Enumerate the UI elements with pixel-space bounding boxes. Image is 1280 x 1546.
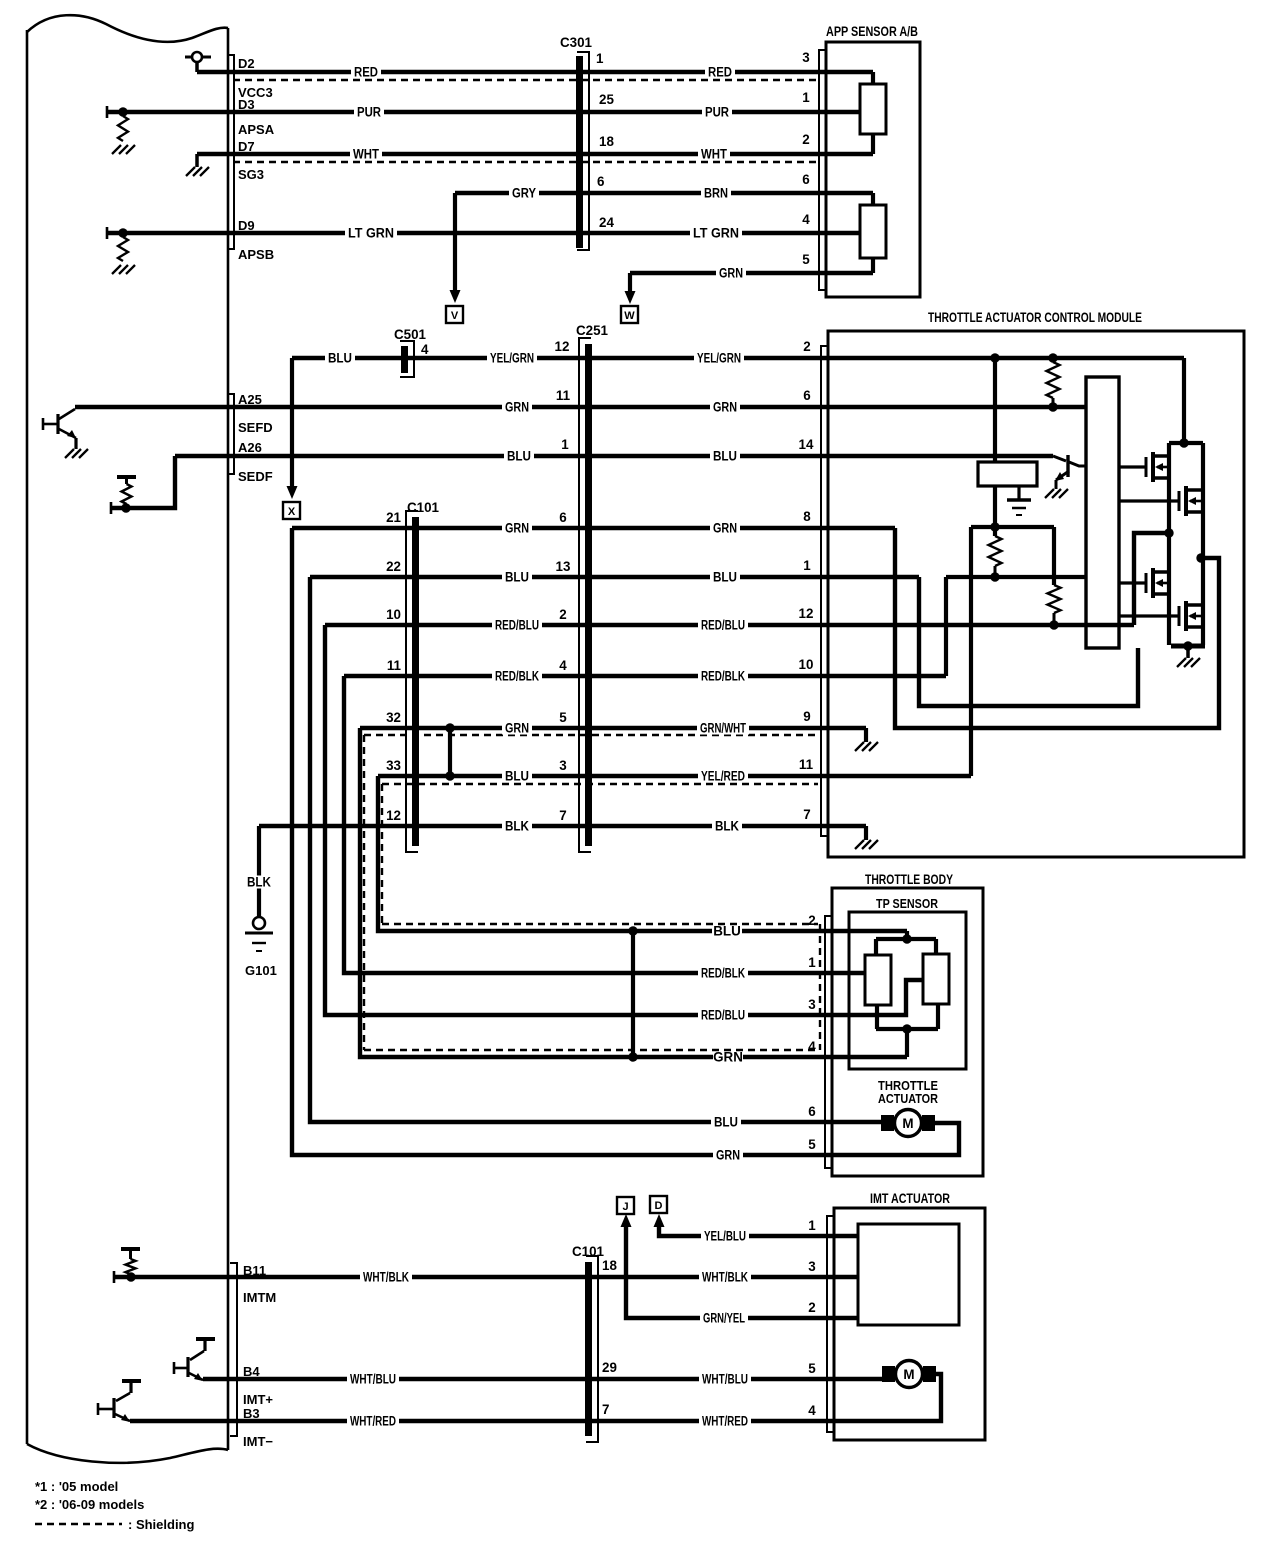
label BLU A26 left (504, 450, 534, 463)
svg-text:BRN: BRN (704, 186, 728, 201)
svg-text:18: 18 (599, 134, 614, 149)
svg-text:APSA: APSA (238, 122, 275, 137)
svg-text:: Shielding: : Shielding (128, 1517, 195, 1532)
ground at TAC pin 9 (855, 742, 864, 751)
ECM pin strip A-group (228, 394, 234, 474)
svg-text:C301: C301 (560, 35, 593, 50)
wire RED/BLK C101 11 to TAC pin 10 (344, 674, 946, 678)
pin 9 ground stub (864, 728, 868, 742)
svg-text:1: 1 (561, 437, 569, 452)
label GRN/YEL I3 (700, 1312, 748, 1325)
wire riser GRN to throttle actuator pin 5 (292, 528, 959, 1155)
svg-text:BLU: BLU (328, 351, 352, 366)
wire BLU C101 22 to TAC pin 1 (310, 575, 919, 579)
svg-text:8: 8 (803, 509, 811, 524)
label BLU W6 left (502, 770, 532, 783)
TP pot 1 bottom stub (875, 1005, 879, 1029)
ground stub at D7 (195, 154, 199, 167)
resistor R3 (1048, 585, 1061, 613)
pin 8 net route (895, 528, 1219, 728)
ground G101 bars (245, 932, 273, 935)
shield dash left outer (363, 735, 365, 1050)
svg-text:B4: B4 (243, 1364, 260, 1379)
shield dashed line for RED wire (233, 79, 818, 81)
svg-text:RED/BLU: RED/BLU (495, 618, 539, 633)
wire A26 internal jog (111, 456, 175, 508)
svg-text:IMT ACTUATOR: IMT ACTUATOR (870, 1191, 950, 1206)
svg-text:21: 21 (386, 510, 401, 525)
label BLU T5 (711, 1116, 741, 1129)
wire GRN C101 21 to TAC pin 8 (292, 526, 895, 530)
TP potentiometer 1 (865, 955, 891, 1005)
label PUR right (702, 106, 732, 119)
svg-text:APSB: APSB (238, 247, 274, 262)
wire WHT/BLU B4 to IMT motor (203, 1377, 882, 1381)
label WHT/BLK I2 left (360, 1271, 412, 1284)
label BLK vertical (244, 876, 274, 889)
label BLU W2 left (502, 571, 532, 584)
IMT position sensor block (858, 1224, 959, 1325)
label RED/BLK W4 left (492, 670, 542, 683)
svg-text:LT GRN: LT GRN (348, 226, 394, 241)
label RED right (705, 66, 735, 79)
svg-text:5: 5 (559, 710, 567, 725)
svg-text:LT GRN: LT GRN (693, 226, 739, 241)
throttle body box (832, 888, 983, 1176)
label BLU right M2 (710, 450, 740, 463)
TP sensor box (849, 912, 966, 1069)
svg-text:32: 32 (386, 710, 401, 725)
svg-text:RED/BLU: RED/BLU (701, 618, 745, 633)
connector box X (283, 502, 300, 519)
svg-text:10: 10 (386, 607, 401, 622)
svg-text:BLU: BLU (505, 769, 529, 784)
resistor R2 (989, 536, 1002, 566)
svg-text:BLU: BLU (713, 449, 737, 464)
svg-text:13: 13 (556, 559, 571, 574)
wire riser RED/BLU to TP sensor pin 3 (325, 625, 923, 1015)
svg-text:BLU: BLU (507, 449, 531, 464)
H-bridge right leg (1201, 443, 1205, 645)
label BLK W7 left (502, 820, 532, 833)
svg-text:A26: A26 (238, 440, 262, 455)
svg-text:SG3: SG3 (238, 167, 264, 182)
TP potentiometer 2 (923, 954, 949, 1004)
svg-text:5: 5 (802, 252, 810, 267)
resistor R1 pullup (1047, 362, 1060, 398)
component ground stub (1017, 486, 1020, 499)
supply drop to H-bridge (1182, 358, 1186, 443)
node shield drain throttle top (628, 926, 637, 935)
svg-text:4: 4 (808, 1039, 816, 1054)
label RED/BLK T2 (698, 967, 748, 980)
pin 11 rail (971, 525, 1054, 529)
rect component lower feed (993, 486, 997, 536)
label BLU at C501 (325, 352, 355, 365)
svg-text:BLU: BLU (505, 570, 529, 585)
svg-text:BLU: BLU (714, 1115, 738, 1130)
label WHT left (350, 148, 382, 161)
wire GRN/YEL riser to J (626, 1227, 858, 1318)
label WHT/BLU I4 left (347, 1373, 399, 1386)
svg-text:THROTTLE ACTUATOR CONTROL MODU: THROTTLE ACTUATOR CONTROL MODULE (928, 310, 1142, 325)
svg-text:6: 6 (808, 1104, 815, 1119)
ground at D7 (186, 167, 195, 176)
wire PUR pin D3 to APP sensor pin 1 (107, 110, 860, 114)
wire BLU / YEL GRN through C501 to TAC pin 2 (292, 356, 1184, 360)
wire GRY drop to connector V (453, 193, 457, 290)
ground at TAC pin 7 (855, 840, 864, 849)
arrow to J (621, 1214, 632, 1227)
connector C501 bracket (400, 341, 414, 377)
ground at H-bridge (1177, 658, 1186, 667)
node pin11 rail at x995 (990, 522, 999, 531)
shield dashed line for WHT wire (233, 161, 818, 163)
svg-text:M: M (903, 1367, 914, 1382)
svg-text:4: 4 (421, 342, 429, 357)
MOSFET Q3 gate lead (1119, 581, 1146, 584)
TAC module bracket (821, 346, 829, 836)
throttle actuator motor terminals (881, 1115, 894, 1131)
terminal tick D3 wire left end (106, 106, 109, 118)
svg-text:11: 11 (799, 757, 814, 772)
svg-text:D2: D2 (238, 56, 255, 71)
svg-text:V: V (451, 310, 459, 322)
label RED/BLU W3 right (698, 619, 748, 632)
label RED/BLU W3 left (492, 619, 542, 632)
H-bridge ground bar (1171, 644, 1205, 649)
svg-text:1: 1 (802, 90, 810, 105)
svg-text:RED: RED (354, 65, 378, 80)
label WHT right (698, 148, 730, 161)
svg-text:GRN/WHT: GRN/WHT (700, 721, 747, 736)
node H-bridge left midpoint (1164, 528, 1173, 537)
ground at A25 transistor (65, 449, 74, 458)
wire BLK C101 12 to TAC pin 7 (259, 824, 866, 828)
wire GRN C101 32 to TAC pin 9 GRN/WHT (360, 726, 866, 730)
coil feed bar at B11 (121, 1247, 140, 1251)
ECM/PCM module outline wavy top (27, 15, 228, 42)
svg-text:A25: A25 (238, 392, 262, 407)
transistor Q5 base bar (1066, 455, 1069, 477)
wire RED pin D2 to APP sensor pin 3 (197, 70, 873, 74)
svg-text:B3: B3 (243, 1406, 260, 1421)
IMT motor terminals (882, 1366, 895, 1382)
wire riser to connector X (290, 358, 294, 486)
driver IC block (1086, 377, 1119, 648)
svg-text:THROTTLE BODY: THROTTLE BODY (865, 872, 953, 887)
svg-text:BLK: BLK (715, 819, 739, 834)
svg-text:3: 3 (802, 50, 809, 65)
svg-text:WHT/RED: WHT/RED (350, 1414, 396, 1429)
svg-text:WHT/RED: WHT/RED (702, 1414, 748, 1429)
svg-text:BLU: BLU (713, 924, 741, 939)
terminal tick A26 internal (110, 502, 113, 514)
noise suppressor coil at D3 (118, 116, 128, 141)
svg-text:3: 3 (559, 758, 566, 773)
arrow to W (625, 291, 636, 304)
svg-text:5: 5 (808, 1361, 816, 1376)
label RED/BLU T3 (698, 1009, 748, 1022)
ground G101 terminal circle (253, 917, 265, 929)
svg-text:D9: D9 (238, 218, 255, 233)
wire BLK riser to G101 (257, 826, 261, 917)
TAC module box (828, 331, 1244, 857)
label WHT/BLU I4 right (699, 1373, 751, 1386)
throttle actuator motor (895, 1110, 922, 1137)
wire WHT pin D7 to APP sensor pin 2 (197, 152, 873, 156)
arrow to X (287, 486, 298, 499)
svg-text:YEL/GRN: YEL/GRN (490, 351, 534, 366)
label BLK W7 right (712, 820, 742, 833)
svg-text:6: 6 (802, 172, 809, 187)
shield dash left inner (381, 784, 383, 924)
svg-text:3: 3 (808, 1259, 815, 1274)
connector C301 bar (576, 56, 583, 248)
connector box V (446, 306, 463, 323)
svg-text:6: 6 (803, 388, 810, 403)
TP pot 2 bottom stub (936, 1004, 940, 1029)
ground at D3 coil (112, 145, 121, 154)
svg-text:11: 11 (387, 658, 402, 673)
svg-text:2: 2 (808, 1300, 815, 1315)
shield drain link throttle side (631, 931, 635, 1057)
svg-text:IMTM: IMTM (243, 1290, 276, 1305)
wire A26 BLU to TAC pin 14 (175, 454, 1053, 458)
ECM/PCM module outline left edge (26, 30, 29, 1444)
pin 10 net to IC (946, 575, 1086, 579)
TP bottom rail (876, 1027, 938, 1031)
wire RED/BLU C101 10 to TAC pin 12 (325, 623, 1134, 627)
svg-text:11: 11 (556, 388, 571, 403)
svg-text:14: 14 (799, 437, 814, 452)
svg-text:TP SENSOR: TP SENSOR (876, 896, 939, 911)
MOSFET Q1 gate lead (1119, 465, 1146, 468)
svg-text:IMT−: IMT− (243, 1434, 273, 1449)
pin 10 net riser (944, 577, 948, 676)
svg-text:BLK: BLK (247, 875, 271, 890)
svg-text:9: 9 (803, 709, 810, 724)
svg-text:22: 22 (386, 559, 401, 574)
transistor at A25 (43, 423, 58, 426)
legend shielding dash (35, 1523, 122, 1525)
svg-text:M: M (902, 1116, 913, 1131)
label BRN (701, 187, 731, 200)
TP top rail (876, 937, 936, 941)
svg-text:7: 7 (559, 808, 566, 823)
label WHT/RED I5 left (347, 1415, 399, 1428)
coil feed bar at A26 (117, 475, 136, 479)
svg-text:J: J (622, 1201, 628, 1213)
svg-text:PUR: PUR (705, 105, 729, 120)
transistor at B3 (122, 1379, 141, 1383)
transistor Q5 base lead (1053, 456, 1066, 461)
svg-text:G101: G101 (245, 963, 277, 978)
svg-text:GRN: GRN (713, 400, 737, 415)
svg-text:2: 2 (802, 132, 809, 147)
component chassis ground (1007, 498, 1031, 502)
node shield drain top (445, 723, 454, 732)
connector box D (650, 1196, 667, 1213)
label GRN right M1 (710, 401, 740, 414)
transistor Q5 collector (1069, 462, 1086, 466)
MOSFET Q4 (1178, 606, 1181, 626)
node YEL/GRN at x1053 (1048, 353, 1057, 362)
wire riser GRN to TP sensor pin 4 (360, 728, 907, 1057)
svg-text:RED/BLK: RED/BLK (701, 669, 745, 684)
svg-text:1: 1 (596, 51, 604, 66)
label GRN right APP (716, 267, 746, 280)
svg-text:GRN: GRN (716, 1148, 740, 1163)
node TP top (902, 934, 911, 943)
IMT bracket (827, 1216, 835, 1432)
MOSFET Q4 gate lead (1119, 614, 1179, 617)
label GRN T4 (713, 1052, 743, 1064)
wire GRY / BRN C301 pin 6 to APP sensor pin 6 (455, 191, 873, 195)
svg-text:GRN: GRN (713, 521, 737, 536)
svg-text:WHT/BLK: WHT/BLK (702, 1270, 748, 1285)
svg-text:YEL/RED: YEL/RED (701, 769, 745, 784)
H-bridge ground stub (1186, 646, 1190, 658)
shield dash top inner W6 (382, 783, 818, 785)
node on D9 wire (118, 228, 127, 237)
APP sensor box (826, 42, 920, 297)
svg-text:4: 4 (559, 658, 567, 673)
node R2 bottom (990, 572, 999, 581)
APP potentiometer 2 bottom (871, 258, 875, 273)
connector C101 bar (412, 517, 419, 846)
node YEL/GRN at x995 (990, 353, 999, 362)
shield dash top outer W5 (364, 734, 818, 736)
pin 11 riser inside TAC (969, 527, 973, 776)
wire LT GRN pin D9 to APP sensor pin 4 (107, 231, 860, 235)
svg-text:BLU: BLU (713, 570, 737, 585)
svg-text:GRN: GRN (505, 721, 529, 736)
MOSFET Q3 (1145, 573, 1148, 593)
arrow to V (450, 290, 461, 303)
svg-text:7: 7 (602, 1402, 609, 1417)
svg-text:4: 4 (802, 212, 810, 227)
IMT actuator box (834, 1208, 985, 1440)
label PUR left (354, 106, 384, 119)
node R3 bottom (1049, 620, 1058, 629)
label YEL/GRN left (487, 352, 537, 365)
MOSFET Q2 gate lead (1119, 499, 1179, 502)
label WHT/RED I5 right (699, 1415, 751, 1428)
svg-text:D: D (655, 1200, 663, 1212)
svg-text:29: 29 (602, 1360, 617, 1375)
noise suppressor coil at A26 (122, 484, 132, 504)
svg-text:RED/BLU: RED/BLU (701, 1008, 745, 1023)
label BLU W2 right (710, 571, 740, 584)
svg-text:1: 1 (803, 558, 811, 573)
pin 7 ground stub (864, 826, 868, 840)
svg-text:IMT+: IMT+ (243, 1392, 273, 1407)
label GRN T6 (713, 1149, 743, 1162)
svg-text:C251: C251 (576, 323, 609, 338)
H-bridge left leg (1167, 443, 1171, 645)
pin 12 net route (1134, 533, 1170, 625)
arrow to D (654, 1214, 665, 1227)
ECM pin strip D-group (228, 55, 234, 249)
node H-bridge right midpoint (1196, 553, 1205, 562)
svg-text:WHT/BLU: WHT/BLU (702, 1372, 748, 1387)
APP potentiometer 1 (860, 84, 886, 134)
APP sensor bracket (819, 50, 827, 290)
ground at transistor Q5 (1045, 489, 1054, 498)
svg-text:GRN: GRN (505, 521, 529, 536)
svg-text:RED/BLK: RED/BLK (701, 966, 745, 981)
MOSFET Q1 (1145, 457, 1148, 477)
ECM/PCM module outline wavy bottom (27, 1444, 228, 1463)
label GRN W5 left (502, 722, 532, 735)
pin 1 net route (919, 577, 1138, 706)
svg-text:YEL/BLU: YEL/BLU (704, 1229, 746, 1244)
svg-text:6: 6 (559, 510, 566, 525)
svg-text:GRN: GRN (505, 400, 529, 415)
label GRN W1 right (710, 522, 740, 535)
svg-text:B11: B11 (243, 1263, 266, 1278)
svg-text:1: 1 (808, 1218, 816, 1233)
shield dash above BLU throttle wire (382, 923, 818, 925)
TP pot 1 feed (874, 939, 878, 955)
label RED left (351, 66, 381, 79)
wire riser RED/BLK to TP sensor pin 1 (344, 676, 865, 973)
node shield drain bottom (445, 771, 454, 780)
svg-text:12: 12 (386, 808, 401, 823)
svg-text:24: 24 (599, 215, 614, 230)
svg-text:WHT/BLU: WHT/BLU (350, 1372, 396, 1387)
svg-text:SEDF: SEDF (238, 469, 273, 484)
node at B11 coil (126, 1272, 135, 1281)
svg-text:ACTUATOR: ACTUATOR (878, 1091, 938, 1106)
node at A26 coil (121, 503, 130, 512)
TP ground drop to pin 4 (905, 1029, 909, 1057)
connector C301 bracket (577, 52, 589, 250)
svg-text:GRN/YEL: GRN/YEL (703, 1311, 745, 1326)
svg-text:WHT/BLK: WHT/BLK (363, 1270, 409, 1285)
label YEL/GRN right (694, 352, 744, 365)
wire WHT/BLK B11 to IMT pin 3 (114, 1275, 858, 1279)
label WHT/BLK I2 right (699, 1271, 751, 1284)
shield dash vertical at throttle bracket (819, 924, 821, 1050)
APP potentiometer 2 feed (871, 193, 875, 205)
ECM/PCM module outline right edge (227, 28, 230, 1450)
label YEL/BLU I1 (701, 1230, 749, 1243)
APP potentiometer 2 (860, 205, 886, 258)
connector C251 bracket (579, 338, 591, 852)
node H-bridge ground (1183, 641, 1192, 650)
connector C101 bottom bracket (586, 1256, 598, 1442)
svg-text:GRY: GRY (512, 186, 536, 201)
svg-text:RED: RED (708, 65, 732, 80)
svg-text:C501: C501 (394, 327, 427, 342)
svg-text:2: 2 (559, 607, 566, 622)
svg-text:12: 12 (799, 606, 814, 621)
connector C501 bar (401, 346, 408, 373)
svg-text:1: 1 (808, 955, 816, 970)
noise suppressor coil at D9 (118, 237, 128, 261)
svg-text:4: 4 (808, 1403, 816, 1418)
label YEL/RED W6 right (698, 770, 748, 783)
svg-text:W: W (624, 310, 635, 322)
node shield drain throttle bottom (628, 1052, 637, 1061)
svg-text:WHT: WHT (701, 147, 728, 162)
label RED/BLK W4 right (698, 670, 748, 683)
throttle body bracket (825, 916, 833, 1168)
connector box W (621, 306, 638, 323)
svg-text:5: 5 (808, 1137, 816, 1152)
